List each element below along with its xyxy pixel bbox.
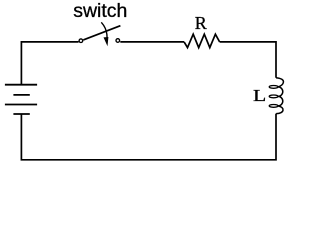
svg-text:switch: switch	[73, 0, 127, 22]
svg-text:R: R	[195, 13, 207, 33]
svg-text:L: L	[253, 87, 266, 105]
